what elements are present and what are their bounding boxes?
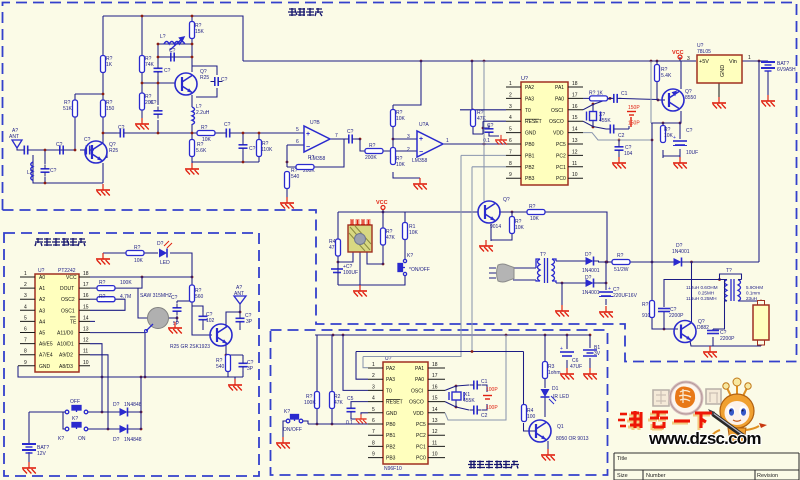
svg-text:8: 8 <box>509 161 512 167</box>
svg-text:C?: C? <box>347 129 354 135</box>
svg-text:7: 7 <box>24 338 27 344</box>
svg-text:100P: 100P <box>486 387 498 393</box>
svg-text:D?: D? <box>585 275 592 281</box>
svg-text:PB2: PB2 <box>525 165 535 171</box>
svg-text:C?: C? <box>150 100 157 106</box>
svg-text:1: 1 <box>446 138 449 144</box>
svg-text:R25: R25 <box>200 75 209 81</box>
svg-text:1ohm: 1ohm <box>548 370 561 376</box>
svg-text:104: 104 <box>624 151 633 157</box>
svg-text:Vin: Vin <box>729 59 737 65</box>
svg-text:0.25MH: 0.25MH <box>698 291 714 296</box>
svg-text:12V: 12V <box>37 451 47 457</box>
svg-text:T?: T? <box>540 252 546 258</box>
svg-text:2.2uH: 2.2uH <box>196 110 210 116</box>
svg-text:ON/OFF: ON/OFF <box>283 427 302 433</box>
svg-text:8550: 8550 <box>685 95 696 101</box>
svg-text:110K: 110K <box>261 147 273 153</box>
svg-text:6: 6 <box>24 327 27 333</box>
svg-text:C?: C? <box>221 77 228 83</box>
svg-text:RESET: RESET <box>525 119 542 125</box>
svg-text:DOUT: DOUT <box>60 286 74 292</box>
svg-text:+: + <box>673 135 676 141</box>
svg-text:U?A: U?A <box>419 122 429 128</box>
svg-text:Revision: Revision <box>757 473 778 479</box>
svg-text:C?: C? <box>84 137 91 143</box>
svg-text:7: 7 <box>509 149 512 155</box>
svg-text:R?: R? <box>99 294 106 300</box>
svg-text:PA1: PA1 <box>555 85 564 91</box>
svg-text:D1: D1 <box>552 386 559 392</box>
svg-text:+: + <box>608 286 611 292</box>
svg-text:6: 6 <box>509 138 512 144</box>
svg-text:11: 11 <box>572 161 577 167</box>
svg-text:1: 1 <box>24 271 27 277</box>
svg-text:9014: 9014 <box>490 224 501 230</box>
svg-text:K?: K? <box>58 436 64 442</box>
svg-text:R?: R? <box>201 125 208 131</box>
svg-text:C5: C5 <box>347 396 354 402</box>
svg-text:D?: D? <box>585 252 592 258</box>
svg-text:C?: C? <box>686 128 693 134</box>
svg-text:12: 12 <box>432 429 438 435</box>
svg-text:LED: LED <box>160 260 170 266</box>
svg-text:Title: Title <box>617 456 627 462</box>
svg-text:VDD: VDD <box>413 411 424 417</box>
svg-text:150P: 150P <box>628 121 640 127</box>
svg-text:C2: C2 <box>481 413 488 419</box>
svg-text:10K: 10K <box>396 116 406 122</box>
svg-text:OFF: OFF <box>70 399 80 405</box>
svg-text:R?: R? <box>99 280 106 286</box>
svg-text:1: 1 <box>748 55 751 61</box>
svg-text:A11/D0: A11/D0 <box>57 331 74 337</box>
svg-text:5.6K: 5.6K <box>196 148 207 154</box>
svg-text:10K: 10K <box>134 258 144 264</box>
svg-text:PB1: PB1 <box>525 153 535 159</box>
svg-text:L?: L? <box>160 34 166 40</box>
svg-text:OSCI: OSCI <box>551 108 563 114</box>
svg-text:A8/D3: A8/D3 <box>59 364 73 370</box>
svg-text:OSC2: OSC2 <box>61 297 75 303</box>
svg-text:U?B: U?B <box>310 120 320 126</box>
svg-text:112uH 0.6OHM: 112uH 0.6OHM <box>686 285 718 290</box>
svg-text:*ON/OFF: *ON/OFF <box>409 267 430 273</box>
svg-text:Q1: Q1 <box>557 424 564 430</box>
svg-text:100P: 100P <box>486 405 498 411</box>
svg-text:13: 13 <box>572 138 578 144</box>
svg-text:100K: 100K <box>120 280 132 286</box>
svg-text:5.9OHM: 5.9OHM <box>746 285 763 290</box>
svg-text:3: 3 <box>24 293 27 299</box>
svg-text:A5: A5 <box>39 331 45 337</box>
svg-text:IR LED: IR LED <box>553 394 570 400</box>
svg-text:C?: C? <box>249 146 256 152</box>
svg-text:10: 10 <box>572 172 578 178</box>
svg-text:−: − <box>306 144 310 151</box>
svg-text:17: 17 <box>432 373 438 379</box>
svg-text:5.4K: 5.4K <box>661 73 672 79</box>
svg-text:Q?: Q? <box>503 197 510 203</box>
svg-text:1N4001: 1N4001 <box>582 290 600 296</box>
svg-text:220UF16V: 220UF16V <box>613 293 638 299</box>
svg-text:455K: 455K <box>463 398 475 404</box>
svg-text:Number: Number <box>646 473 666 479</box>
svg-text:PA3: PA3 <box>386 377 395 383</box>
svg-text:4.7M: 4.7M <box>120 294 131 300</box>
svg-text:455K: 455K <box>599 118 611 124</box>
svg-text:R?: R? <box>134 245 141 251</box>
svg-text:51/2W: 51/2W <box>614 267 629 273</box>
svg-text:0.1: 0.1 <box>346 420 353 426</box>
svg-text:PB0: PB0 <box>386 422 396 428</box>
svg-text:PA0: PA0 <box>415 377 424 383</box>
svg-text:10K: 10K <box>202 137 212 143</box>
svg-text:R25 GR 2SK1923: R25 GR 2SK1923 <box>170 344 210 350</box>
svg-text:TE: TE <box>70 319 77 325</box>
svg-text:GND: GND <box>386 411 398 417</box>
svg-text:3P: 3P <box>247 366 254 372</box>
svg-text:1N4848: 1N4848 <box>124 402 142 408</box>
svg-text:A9/D2: A9/D2 <box>59 353 73 359</box>
svg-text:74K: 74K <box>145 62 155 68</box>
svg-text:47UF: 47UF <box>570 364 582 370</box>
svg-text:PA1: PA1 <box>415 366 424 372</box>
svg-text:910: 910 <box>642 313 651 319</box>
svg-text:A6/E5: A6/E5 <box>39 342 53 348</box>
svg-text:150: 150 <box>106 106 115 112</box>
svg-text:A10/D1: A10/D1 <box>57 342 74 348</box>
svg-text:1N4848: 1N4848 <box>124 437 142 443</box>
svg-text:102: 102 <box>206 318 215 324</box>
svg-text:VCC: VCC <box>376 200 388 206</box>
svg-text:7: 7 <box>335 133 338 139</box>
svg-text:540: 540 <box>216 364 225 370</box>
svg-text:2: 2 <box>407 147 410 153</box>
svg-text:4: 4 <box>509 115 512 121</box>
svg-text:PC2: PC2 <box>556 153 566 159</box>
svg-text:PA0: PA0 <box>555 96 564 102</box>
svg-text:11: 11 <box>432 440 437 446</box>
svg-text:150P: 150P <box>628 105 640 111</box>
svg-text:D?: D? <box>113 402 120 408</box>
svg-text:R?: R? <box>529 204 536 210</box>
svg-text:A3: A3 <box>39 308 45 314</box>
svg-text:+: + <box>560 346 563 352</box>
svg-text:A1: A1 <box>39 286 45 292</box>
svg-text:1: 1 <box>372 362 375 368</box>
svg-text:PC0: PC0 <box>556 176 566 182</box>
svg-text:GND: GND <box>39 364 51 370</box>
svg-text:3V: 3V <box>594 351 601 357</box>
svg-text:2: 2 <box>372 373 375 379</box>
svg-text:N96F10: N96F10 <box>384 466 402 472</box>
svg-text:18: 18 <box>572 81 578 87</box>
svg-text:78L05: 78L05 <box>697 49 711 55</box>
svg-text:1: 1 <box>509 81 512 87</box>
svg-text:PA2: PA2 <box>386 366 395 372</box>
svg-text:10UF: 10UF <box>686 150 698 156</box>
svg-text:3: 3 <box>372 384 375 390</box>
svg-text:PB0: PB0 <box>525 142 535 148</box>
svg-text:PC2: PC2 <box>416 433 426 439</box>
svg-text:PA2: PA2 <box>525 85 534 91</box>
svg-text:2200P: 2200P <box>669 313 684 319</box>
svg-text:ANT: ANT <box>234 291 244 297</box>
svg-text:OSCO: OSCO <box>409 400 424 406</box>
svg-text:L?: L? <box>27 170 33 176</box>
svg-text:R25: R25 <box>109 148 118 154</box>
svg-text:10: 10 <box>432 452 438 458</box>
svg-text:C?: C? <box>56 142 63 148</box>
svg-text:K?: K? <box>284 409 290 415</box>
svg-text:6: 6 <box>296 139 299 145</box>
svg-text:1K: 1K <box>106 62 113 68</box>
svg-text:C1: C1 <box>481 379 488 385</box>
svg-text:14: 14 <box>572 127 578 133</box>
svg-text:PC1: PC1 <box>556 165 566 171</box>
svg-text:PT2242: PT2242 <box>58 268 76 274</box>
svg-text:11: 11 <box>83 349 88 355</box>
svg-text:T?: T? <box>726 268 732 274</box>
svg-text:PB1: PB1 <box>386 433 396 439</box>
svg-text:10K: 10K <box>664 133 674 139</box>
svg-text:3: 3 <box>509 104 512 110</box>
svg-text:PB3: PB3 <box>525 176 535 182</box>
svg-text:5P: 5P <box>173 321 180 327</box>
svg-text:15: 15 <box>572 115 578 121</box>
svg-text:12: 12 <box>572 149 578 155</box>
svg-text:C?: C? <box>164 68 171 74</box>
svg-text:3: 3 <box>687 56 690 62</box>
svg-text:Size: Size <box>617 473 628 479</box>
svg-text:2200P: 2200P <box>720 336 735 342</box>
svg-text:47: 47 <box>329 245 335 251</box>
svg-text:SAW 315MHZ: SAW 315MHZ <box>140 293 172 299</box>
svg-text:PC5: PC5 <box>556 142 566 148</box>
svg-text:PC0: PC0 <box>416 456 426 462</box>
svg-text:RESET: RESET <box>386 400 403 406</box>
svg-text:15K: 15K <box>195 29 205 35</box>
svg-text:9: 9 <box>509 172 512 178</box>
svg-text:5: 5 <box>296 127 299 133</box>
svg-text:10K: 10K <box>530 216 540 222</box>
svg-text:18: 18 <box>83 271 89 277</box>
svg-text:OSCI: OSCI <box>411 388 423 394</box>
svg-text:C?: C? <box>50 168 57 174</box>
svg-text:2: 2 <box>24 282 27 288</box>
svg-text:K?: K? <box>72 416 78 422</box>
svg-text:+5V: +5V <box>699 59 709 65</box>
svg-text:A4: A4 <box>39 319 45 325</box>
svg-text:R?: R? <box>308 155 315 161</box>
svg-text:VCC: VCC <box>66 275 77 281</box>
svg-text:23uH: 23uH <box>746 296 757 301</box>
svg-text:+: + <box>306 131 310 138</box>
svg-text:VCC: VCC <box>672 50 684 56</box>
svg-text:8: 8 <box>372 440 375 446</box>
svg-text:14: 14 <box>83 315 89 321</box>
svg-text:6V9A5H: 6V9A5H <box>777 67 796 73</box>
svg-text:12: 12 <box>83 338 89 344</box>
svg-text:540: 540 <box>291 174 300 180</box>
svg-text:15: 15 <box>83 304 89 310</box>
svg-text:18: 18 <box>432 362 438 368</box>
svg-text:17: 17 <box>83 282 89 288</box>
svg-text:16: 16 <box>83 293 89 299</box>
svg-text:PB2: PB2 <box>386 444 396 450</box>
svg-text:U?: U? <box>38 268 45 274</box>
svg-text:PC5: PC5 <box>416 422 426 428</box>
svg-text:7: 7 <box>372 429 375 435</box>
svg-text:17: 17 <box>572 92 578 98</box>
svg-text:15: 15 <box>432 396 438 402</box>
svg-text:LM358: LM358 <box>412 158 428 164</box>
svg-text:A0: A0 <box>39 275 45 281</box>
svg-text:GND: GND <box>720 65 726 77</box>
svg-text:C?: C? <box>118 125 125 131</box>
svg-text:10: 10 <box>83 360 89 366</box>
svg-text:2: 2 <box>509 92 512 98</box>
svg-text:C?: C? <box>224 122 231 128</box>
svg-text:C2: C2 <box>618 133 625 139</box>
svg-text:47K: 47K <box>386 235 396 241</box>
svg-text:D?: D? <box>157 241 164 247</box>
svg-text:100UF: 100UF <box>343 270 358 276</box>
svg-text:116uH 0.25MH: 116uH 0.25MH <box>686 296 717 301</box>
svg-text:100K: 100K <box>304 400 316 406</box>
svg-text:K?: K? <box>407 253 413 259</box>
svg-text:10K: 10K <box>515 225 525 231</box>
svg-text:ON: ON <box>78 436 86 442</box>
svg-text:PB3: PB3 <box>386 456 396 462</box>
svg-text:4: 4 <box>372 396 375 402</box>
svg-text:1N4001: 1N4001 <box>672 249 690 255</box>
svg-text:D?: D? <box>113 437 120 443</box>
svg-text:16: 16 <box>432 384 438 390</box>
svg-text:3P: 3P <box>246 319 253 325</box>
svg-text:47K: 47K <box>334 400 344 406</box>
svg-text:1N4001: 1N4001 <box>582 268 600 274</box>
svg-text:0.1mm: 0.1mm <box>746 291 760 296</box>
svg-text:13: 13 <box>432 418 438 424</box>
svg-text:C?: C? <box>171 295 178 301</box>
svg-text:R?: R? <box>642 302 649 308</box>
svg-text:PC1: PC1 <box>416 444 426 450</box>
svg-text:16: 16 <box>572 104 578 110</box>
svg-text:−: − <box>419 149 423 156</box>
svg-text:C?: C? <box>169 48 176 54</box>
svg-text:14: 14 <box>432 407 438 413</box>
svg-text:560: 560 <box>195 294 204 300</box>
svg-text:51K: 51K <box>63 106 73 112</box>
svg-text:PA3: PA3 <box>525 96 534 102</box>
svg-text:8: 8 <box>24 349 27 355</box>
svg-text:10K: 10K <box>396 162 406 168</box>
svg-text:4: 4 <box>24 304 27 310</box>
svg-text:200K: 200K <box>365 155 377 161</box>
svg-text:9: 9 <box>24 360 27 366</box>
svg-text:OSC1: OSC1 <box>61 308 75 314</box>
svg-text:5: 5 <box>24 315 27 321</box>
svg-text:10K: 10K <box>409 230 419 236</box>
svg-text:8050 OR 9013: 8050 OR 9013 <box>556 436 589 442</box>
svg-text:A7/E4: A7/E4 <box>39 353 53 359</box>
svg-text:T0: T0 <box>525 108 531 114</box>
svg-text:www.dzsc.com: www.dzsc.com <box>648 429 761 448</box>
svg-text:13: 13 <box>83 327 89 333</box>
svg-text:5: 5 <box>372 407 375 413</box>
svg-text:100: 100 <box>527 414 536 420</box>
svg-text:OSCO: OSCO <box>549 119 564 125</box>
svg-text:R?: R? <box>617 253 624 259</box>
svg-text:9: 9 <box>372 452 375 458</box>
svg-text:+: + <box>419 136 423 143</box>
svg-text:U?: U? <box>521 76 528 82</box>
svg-text:ANT: ANT <box>9 134 19 140</box>
svg-text:6: 6 <box>372 418 375 424</box>
svg-text:GND: GND <box>525 131 537 137</box>
svg-text:VDD: VDD <box>553 131 564 137</box>
svg-text:5: 5 <box>509 127 512 133</box>
svg-text:C1: C1 <box>621 91 628 97</box>
svg-text:A2: A2 <box>39 297 45 303</box>
svg-text:T0: T0 <box>386 388 392 394</box>
